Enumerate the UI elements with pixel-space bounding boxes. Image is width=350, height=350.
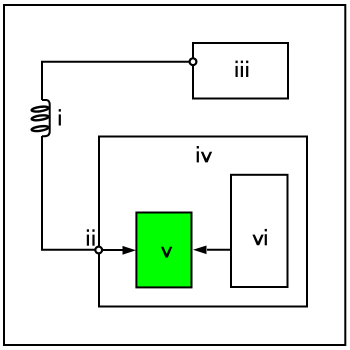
inductor i: [31, 100, 49, 136]
block iv: [99, 137, 307, 307]
label ii: [87, 229, 95, 245]
block iii: [193, 43, 288, 99]
arrow from node ii into block v: [102, 246, 136, 255]
arrow from block vi into block v: [193, 246, 231, 255]
block v: [136, 213, 191, 288]
node at block iii input: [190, 58, 197, 65]
node ii: [95, 247, 102, 254]
label i: [59, 109, 61, 125]
label vi: [252, 229, 267, 245]
label iv: [197, 146, 212, 162]
label iii: [236, 61, 249, 77]
label v: [161, 247, 172, 258]
wire from inductor top to block iii node: [42, 62, 192, 100]
wire from inductor bottom to node ii: [42, 136, 98, 250]
block vi: [231, 175, 288, 287]
